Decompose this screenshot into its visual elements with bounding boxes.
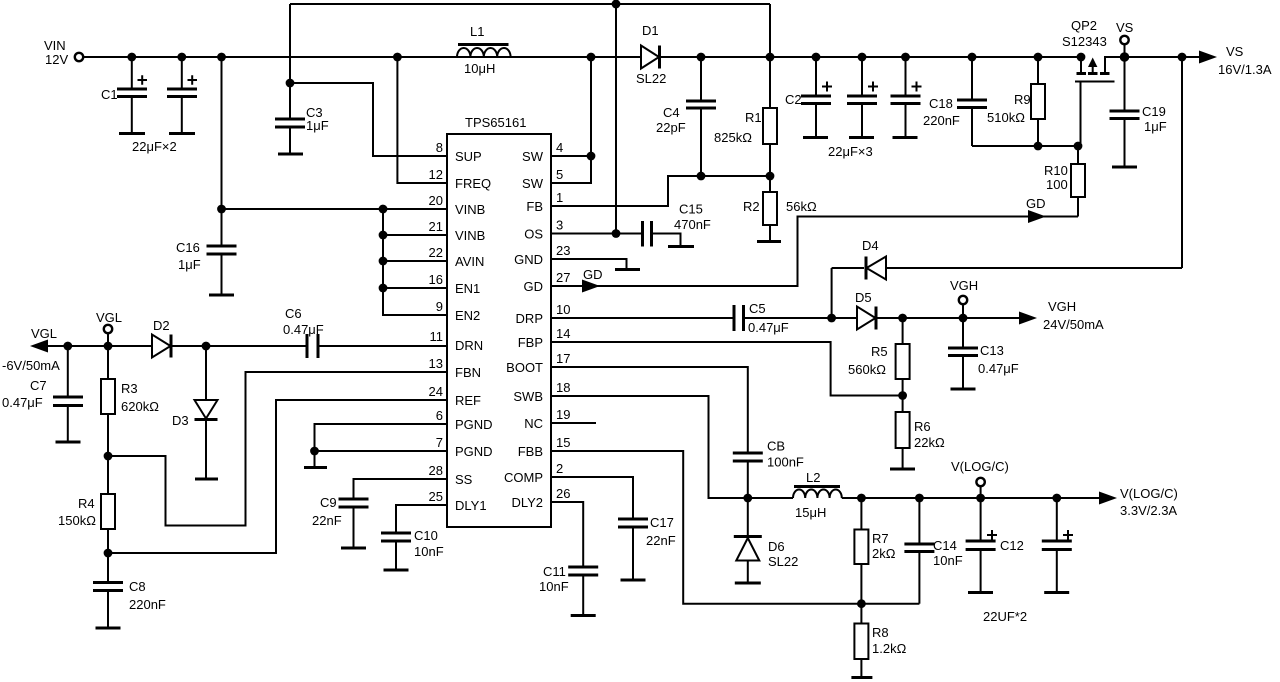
svg-text:150kΩ: 150kΩ: [58, 513, 96, 528]
svg-text:L1: L1: [470, 24, 484, 39]
diode D2: [152, 318, 171, 358]
svg-text:PGND: PGND: [455, 417, 493, 432]
svg-text:6: 6: [436, 408, 443, 423]
svg-text:SL22: SL22: [768, 554, 798, 569]
capacitor C12b electrolytic 22uF: [1042, 498, 1073, 593]
resistor R7 2k: [854, 498, 895, 604]
svg-text:10nF: 10nF: [414, 544, 444, 559]
svg-text:22nF: 22nF: [646, 533, 676, 548]
svg-text:C10: C10: [414, 528, 438, 543]
svg-text:C17: C17: [650, 515, 674, 530]
junction dots on main rail: [127, 52, 1186, 62]
svg-text:0.47μF: 0.47μF: [748, 320, 789, 335]
svg-text:D1: D1: [642, 23, 659, 38]
svg-text:COMP: COMP: [504, 470, 543, 485]
capacitor C4 22pF: [656, 57, 716, 176]
wire COMP pin to C17: [551, 477, 633, 518]
svg-text:VINB: VINB: [455, 202, 485, 217]
wire BOOT pin to CB: [551, 367, 748, 452]
resistor R6 22k: [890, 396, 945, 470]
svg-text:QP2: QP2: [1071, 18, 1097, 33]
inductor L1 10uH: [457, 24, 511, 76]
svg-text:10μH: 10μH: [464, 61, 495, 76]
svg-text:FBN: FBN: [455, 365, 481, 380]
diode D5: [855, 290, 876, 330]
svg-text:R6: R6: [914, 419, 931, 434]
svg-text:GND: GND: [514, 252, 543, 267]
node VGH output arrow: [1019, 299, 1104, 332]
wire OS vertical from top loop: [615, 4, 617, 234]
svg-text:L2: L2: [806, 470, 820, 485]
svg-text:VGH: VGH: [950, 278, 978, 293]
svg-text:GD: GD: [583, 267, 603, 282]
svg-text:11: 11: [430, 329, 444, 344]
wire SW pins to rail: [551, 57, 595, 183]
svg-text:VGL: VGL: [96, 310, 122, 325]
svg-text:SW: SW: [522, 149, 544, 164]
svg-text:D4: D4: [862, 238, 879, 253]
svg-text:DLY2: DLY2: [511, 495, 543, 510]
svg-text:26: 26: [556, 486, 570, 501]
svg-text:2: 2: [556, 461, 563, 476]
svg-text:22: 22: [429, 245, 443, 260]
capacitor C2c electrolytic 22uF: [828, 57, 922, 159]
capacitor C12 electrolytic 22uF: [966, 498, 1027, 624]
IC left pin names: [455, 149, 493, 513]
svg-text:15μH: 15μH: [795, 505, 826, 520]
svg-text:16V/1.3A: 16V/1.3A: [1218, 62, 1272, 77]
svg-text:V(LOG/C): V(LOG/C): [1120, 486, 1178, 501]
svg-text:VS: VS: [1116, 20, 1134, 35]
svg-text:100nF: 100nF: [767, 455, 804, 470]
node V(LOG/C) output arrow: [1099, 486, 1178, 518]
svg-text:C12: C12: [1000, 538, 1024, 553]
svg-text:12: 12: [429, 167, 443, 182]
capacitor C10 10nF: [381, 528, 444, 570]
svg-text:D5: D5: [855, 290, 872, 305]
svg-text:R8: R8: [872, 625, 889, 640]
svg-text:-6V/50mA: -6V/50mA: [2, 358, 60, 373]
wire VS rail D1 cathode to QP2 source: [659, 56, 1081, 58]
svg-text:22nF: 22nF: [312, 513, 342, 528]
inductor L2 15uH: [748, 470, 842, 520]
resistor R4 150k: [58, 456, 115, 553]
svg-text:24V/50mA: 24V/50mA: [1043, 317, 1104, 332]
svg-text:VINB: VINB: [455, 228, 485, 243]
svg-text:AVIN: AVIN: [455, 254, 484, 269]
svg-text:V(LOG/C): V(LOG/C): [951, 459, 1009, 474]
svg-text:620kΩ: 620kΩ: [121, 399, 159, 414]
svg-text:SS: SS: [455, 472, 473, 487]
capacitor C6 0.47uF series: [283, 306, 324, 358]
svg-text:10nF: 10nF: [933, 553, 963, 568]
resistor R9 510k: [987, 57, 1045, 146]
svg-text:22pF: 22pF: [656, 120, 686, 135]
node GD arrow at R10: [1026, 196, 1046, 223]
svg-text:19: 19: [556, 407, 570, 422]
resistor R5 560k: [848, 318, 910, 396]
svg-text:PGND: PGND: [455, 444, 493, 459]
capacitor C15 470nF series: [643, 202, 711, 247]
capacitor C13 0.47uF: [948, 318, 1019, 389]
svg-text:S12343: S12343: [1062, 34, 1107, 49]
svg-text:FBP: FBP: [518, 335, 543, 350]
svg-text:GD: GD: [524, 279, 544, 294]
wire C3 node to SUP pin: [290, 83, 447, 156]
op-amp U1 TPS65161 IC body: [447, 115, 551, 527]
svg-text:R3: R3: [121, 381, 138, 396]
capacitor C9 22nF: [312, 495, 369, 548]
capacitor C18 220nF: [923, 57, 987, 146]
wire GD pin 27 route to R10: [551, 217, 1078, 287]
svg-text:C18: C18: [929, 96, 953, 111]
svg-text:DRP: DRP: [516, 311, 543, 326]
resistor R2 56k: [743, 176, 817, 242]
svg-text:C15: C15: [679, 202, 703, 217]
svg-text:NC: NC: [524, 416, 543, 431]
resistor R10 100: [1044, 146, 1085, 217]
svg-text:28: 28: [429, 463, 443, 478]
svg-text:22UF*2: 22UF*2: [983, 609, 1027, 624]
svg-text:FBB: FBB: [518, 444, 543, 459]
svg-text:470nF: 470nF: [674, 217, 711, 232]
capacitor C1b electrolytic 22uF: [132, 57, 197, 154]
svg-text:C16: C16: [176, 240, 200, 255]
svg-text:TPS65161: TPS65161: [465, 115, 526, 130]
svg-text:C7: C7: [30, 378, 47, 393]
resistor R1 825k: [714, 57, 777, 176]
svg-text:REF: REF: [455, 393, 481, 408]
node VGL output arrow: [2, 326, 60, 373]
svg-text:560kΩ: 560kΩ: [848, 362, 886, 377]
svg-text:R9: R9: [1014, 92, 1031, 107]
svg-text:5: 5: [556, 167, 563, 182]
svg-text:22μF×3: 22μF×3: [828, 144, 873, 159]
svg-text:EN1: EN1: [455, 281, 480, 296]
svg-text:7: 7: [436, 435, 443, 450]
svg-text:1μF: 1μF: [306, 118, 329, 133]
node V(LOG/C) terminal: [951, 459, 1009, 498]
node VS output arrow: [1199, 44, 1272, 77]
svg-text:VIN: VIN: [44, 38, 66, 53]
svg-text:0.47μF: 0.47μF: [978, 361, 1019, 376]
svg-text:24: 24: [429, 384, 443, 399]
IC right pin numbers: [556, 140, 570, 501]
node VIN input terminal: [44, 38, 83, 67]
svg-text:8: 8: [436, 140, 443, 155]
ground GND pin 23: [551, 259, 640, 270]
wire VS rail down to D4 anode: [1181, 57, 1183, 268]
svg-text:FREQ: FREQ: [455, 176, 491, 191]
svg-text:R2: R2: [743, 199, 760, 214]
node VGH terminal: [950, 278, 978, 318]
svg-text:510kΩ: 510kΩ: [987, 110, 1025, 125]
svg-text:VGH: VGH: [1048, 299, 1076, 314]
resistor R8 1.2k: [851, 604, 906, 678]
wire VGL line to DRN pin: [46, 342, 447, 351]
svg-text:0.47μF: 0.47μF: [2, 395, 43, 410]
wire D4 to DRP line: [831, 268, 833, 318]
svg-text:GD: GD: [1026, 196, 1046, 211]
svg-text:SL22: SL22: [636, 71, 666, 86]
svg-text:56kΩ: 56kΩ: [786, 199, 817, 214]
node L2 left junction: [743, 494, 752, 503]
wire FBN pin route to R3/R4 node: [108, 372, 447, 526]
svg-text:13: 13: [429, 356, 443, 371]
wire C5 to D5 anode: [744, 314, 858, 323]
svg-text:27: 27: [556, 270, 570, 285]
ground C15: [652, 234, 695, 247]
wire REF pin route to R4 bottom: [108, 400, 447, 553]
svg-text:R1: R1: [745, 110, 762, 125]
wire NC pin stub: [551, 422, 596, 424]
svg-text:SWB: SWB: [513, 389, 543, 404]
wire PGND pins to ground: [310, 424, 447, 455]
svg-text:3: 3: [556, 218, 563, 233]
capacitor C2 electrolytic 22uF: [785, 57, 832, 138]
svg-text:C1: C1: [101, 87, 118, 102]
wire FB pin to R1/R2 node: [551, 172, 774, 206]
svg-text:22kΩ: 22kΩ: [914, 435, 945, 450]
diode D6 SL22: [734, 498, 799, 583]
wire DLY1 pin to C10: [396, 505, 447, 532]
wire V(LOG/C) line L2 to arrow: [842, 494, 1100, 503]
wire DLY2 pin to C11: [551, 502, 583, 566]
svg-text:21: 21: [429, 219, 443, 234]
svg-text:C2: C2: [785, 92, 802, 107]
svg-text:17: 17: [556, 351, 570, 366]
diode D3: [172, 346, 218, 479]
capacitor C2b electrolytic 22uF: [847, 57, 878, 138]
diode D4: [832, 238, 1182, 280]
svg-text:R5: R5: [871, 344, 888, 359]
svg-text:1: 1: [556, 190, 563, 205]
svg-text:10: 10: [556, 302, 570, 317]
wire FBB pin route to R7/R8 node: [551, 451, 919, 608]
svg-text:1μF: 1μF: [178, 257, 201, 272]
capacitor C1 electrolytic 22uF: [101, 57, 147, 134]
svg-text:D2: D2: [153, 318, 170, 333]
diode D1 SL22: [636, 23, 666, 86]
node GD pin 27 arrow: [582, 267, 603, 293]
svg-text:R7: R7: [872, 531, 889, 546]
svg-text:23: 23: [556, 243, 570, 258]
svg-text:DRN: DRN: [455, 338, 483, 353]
svg-text:1μF: 1μF: [1144, 119, 1167, 134]
svg-text:C6: C6: [285, 306, 302, 321]
svg-text:4: 4: [556, 140, 563, 155]
node VS terminal: [1116, 20, 1134, 57]
capacitor C16 1uF: [176, 240, 237, 295]
wire SS pin to C9: [354, 479, 448, 498]
svg-text:220nF: 220nF: [923, 113, 960, 128]
svg-text:FB: FB: [526, 199, 543, 214]
node R4/C8 junction: [104, 549, 113, 558]
svg-text:C14: C14: [933, 538, 957, 553]
svg-text:DLY1: DLY1: [455, 498, 487, 513]
svg-text:2kΩ: 2kΩ: [872, 546, 896, 561]
capacitor C8 220nF: [93, 553, 166, 628]
resistor R3 620k: [101, 346, 159, 456]
wire FREQ drop from rail: [397, 57, 447, 183]
IC left pin numbers: [429, 140, 443, 504]
svg-text:14: 14: [556, 326, 570, 341]
svg-text:0.47μF: 0.47μF: [283, 322, 324, 337]
node VGL terminal: [96, 310, 122, 346]
svg-text:C5: C5: [749, 301, 766, 316]
svg-text:15: 15: [556, 435, 570, 450]
svg-text:SW: SW: [522, 176, 544, 191]
wire VGH line D5 to arrow: [876, 314, 1020, 323]
svg-text:220nF: 220nF: [129, 597, 166, 612]
ground PGND: [304, 451, 327, 468]
svg-text:SUP: SUP: [455, 149, 482, 164]
svg-text:D6: D6: [768, 539, 785, 554]
wire VIN rail to D1 anode: [84, 56, 641, 58]
wire VINB/AVIN/EN tie rail: [379, 205, 447, 315]
wire DRP pin to C5: [551, 317, 734, 319]
svg-text:VS: VS: [1226, 44, 1244, 59]
IC right pin names: [504, 149, 544, 510]
svg-text:C8: C8: [129, 579, 146, 594]
svg-text:10nF: 10nF: [539, 579, 569, 594]
svg-text:D3: D3: [172, 413, 189, 428]
capacitor C7 0.47uF: [2, 346, 83, 442]
svg-text:25: 25: [429, 489, 443, 504]
svg-text:BOOT: BOOT: [506, 360, 543, 375]
capacitor C5 0.47uF series: [734, 301, 789, 335]
wire top loop from C3 node to R1 node: [290, 0, 770, 83]
svg-text:16: 16: [429, 272, 443, 287]
svg-text:OS: OS: [524, 227, 543, 242]
svg-text:CB: CB: [767, 439, 785, 454]
capacitor C19 1uF: [1110, 57, 1167, 167]
capacitor C14 10nF: [904, 498, 962, 604]
svg-text:100: 100: [1046, 177, 1068, 192]
capacitor C17 22nF: [618, 515, 676, 580]
svg-text:18: 18: [556, 380, 570, 395]
svg-text:R10: R10: [1044, 163, 1068, 178]
wire VS rail QP2 drain to output arrow: [1105, 56, 1200, 58]
capacitor C11 10nF: [539, 564, 598, 616]
svg-text:C4: C4: [663, 105, 680, 120]
wire C18 bottom to R9 bottom and gate node: [972, 142, 1082, 151]
svg-text:3.3V/2.3A: 3.3V/2.3A: [1120, 503, 1177, 518]
svg-text:1.2kΩ: 1.2kΩ: [872, 641, 907, 656]
capacitor CB 100nF: [733, 439, 804, 499]
transistor QP2 S12343 PMOS: [1062, 18, 1125, 146]
wire OS pin to C15: [551, 229, 642, 238]
svg-text:22μF×2: 22μF×2: [132, 139, 177, 154]
svg-text:C9: C9: [320, 495, 337, 510]
svg-text:20: 20: [429, 193, 443, 208]
svg-text:C19: C19: [1142, 104, 1166, 119]
wire VIN branch down to C16 and VINB rail: [217, 57, 383, 246]
node R3/R4 junction: [104, 452, 113, 461]
svg-text:12V: 12V: [45, 52, 68, 67]
svg-text:C11: C11: [543, 564, 566, 579]
capacitor C3 1uF: [275, 83, 329, 154]
svg-text:VGL: VGL: [31, 326, 57, 341]
svg-text:9: 9: [436, 299, 443, 314]
svg-text:825kΩ: 825kΩ: [714, 130, 752, 145]
wire FBP pin route to R5/R6 node: [551, 342, 907, 400]
node C3 junction: [286, 79, 295, 88]
svg-text:EN2: EN2: [455, 308, 480, 323]
wire SWB pin to L2 node: [551, 396, 748, 498]
svg-text:C13: C13: [980, 343, 1004, 358]
svg-text:R4: R4: [78, 496, 95, 511]
